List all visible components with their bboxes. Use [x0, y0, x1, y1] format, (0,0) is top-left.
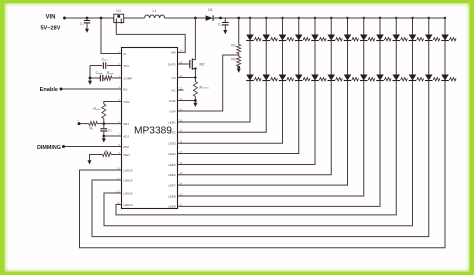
wire LED2 bus — [178, 81, 267, 133]
node CS junction — [194, 76, 196, 78]
svg-text:LED3: LED3 — [168, 142, 176, 146]
resistor R1 — [238, 18, 240, 45]
wire VCC pin — [107, 65, 122, 67]
svg-text:Rₐₒₙ: Rₐₒₙ — [107, 71, 114, 75]
wire string 6 upper — [330, 18, 332, 35]
svg-text:DIMMING: DIMMING — [37, 145, 61, 151]
wire COMP mid — [103, 77, 104, 79]
svg-text:LED2: LED2 — [168, 131, 176, 135]
capacitor Cout — [224, 18, 226, 22]
wire LED5 bus — [178, 81, 316, 165]
svg-text:R2: R2 — [231, 57, 236, 61]
svg-text:MP3389: MP3389 — [134, 126, 172, 137]
node string 7 top — [346, 17, 348, 19]
wire LED15 bus loop — [92, 81, 429, 237]
terminal FSET — [78, 122, 81, 125]
svg-text:Rₛₒₙₛₒ: Rₛₒₙₛₒ — [200, 85, 210, 89]
wire ISET pin — [111, 154, 122, 156]
LED string 4 D4a — [295, 35, 303, 41]
wire L1 to D1 — [165, 17, 206, 19]
svg-text:Cₛ: Cₛ — [108, 129, 113, 133]
node R2 bottom — [237, 66, 240, 69]
LED string 10 D10a — [392, 35, 400, 41]
svg-text:EN: EN — [123, 87, 127, 91]
node string 4 top — [298, 17, 300, 19]
pin NC stub — [178, 89, 184, 91]
node ADJ junction — [102, 135, 105, 138]
resistor Rsense — [193, 82, 197, 97]
LED string 4 D4b — [295, 75, 303, 81]
wire GND pin — [178, 100, 196, 102]
transistor M2 — [189, 60, 191, 68]
wire OSC pin — [104, 102, 122, 105]
node string 3 top — [281, 17, 283, 19]
node string 9 top — [379, 17, 381, 19]
capacitor Cset stem — [103, 124, 105, 129]
resistor Rset — [89, 122, 98, 126]
wire string 13 upper — [444, 18, 446, 35]
LED string 10 D10b — [392, 75, 400, 81]
wire string 6 middle — [330, 41, 332, 75]
wire LED8 bus — [178, 81, 364, 197]
node string 5 top — [314, 17, 316, 19]
node string 2 top — [265, 17, 267, 19]
node string 8 top — [363, 17, 365, 19]
svg-text:LED16: LED16 — [123, 168, 133, 172]
LED string 8 D8b — [360, 75, 368, 81]
terminal Enable — [60, 88, 63, 91]
wire string 10 middle — [395, 41, 397, 75]
terminal DIMMING — [62, 145, 65, 148]
svg-text:LED8: LED8 — [168, 194, 176, 198]
LED string 12 D12a — [425, 35, 433, 41]
node string 1 top — [249, 17, 251, 19]
svg-text:COMP: COMP — [123, 76, 132, 80]
svg-text:LED4: LED4 — [168, 152, 176, 156]
node string 12 top — [428, 17, 430, 19]
svg-text:SW: SW — [171, 51, 176, 55]
node R1 top junction — [237, 17, 240, 20]
wire string 12 middle — [428, 41, 430, 75]
LED string 11 D11b — [409, 75, 417, 81]
resistor R2 — [237, 57, 241, 67]
wire string 4 upper — [298, 18, 300, 35]
svg-text:Cₒ: Cₒ — [218, 23, 223, 27]
svg-text:Cₗₒₒ: Cₗₒₒ — [102, 58, 109, 62]
LED string 7 D7b — [344, 75, 352, 81]
wire U1 to L1 — [124, 17, 145, 19]
wire string 13 middle — [444, 41, 446, 75]
wire ADJ pin — [104, 135, 122, 137]
wire gate pin — [178, 63, 190, 65]
wire string 5 upper — [314, 18, 316, 35]
resistor Rosc — [102, 104, 106, 119]
svg-text:25: 25 — [179, 60, 183, 64]
wire string 2 middle — [265, 41, 267, 75]
ground Rsense — [194, 101, 196, 103]
svg-text:ISET: ISET — [123, 153, 130, 157]
svg-text:LED15: LED15 — [123, 178, 133, 182]
svg-text:26: 26 — [179, 49, 183, 53]
node COMP gnd junction — [89, 77, 92, 80]
wire string 4 middle — [298, 41, 300, 75]
wire string 1 middle — [249, 41, 251, 75]
wire Rsense bottom — [194, 97, 196, 101]
wire COMP left — [90, 77, 100, 79]
capacitor Cin — [86, 18, 88, 20]
wire string 9 upper — [379, 18, 381, 35]
wire LED6 bus — [178, 81, 332, 175]
wire string 1 upper — [249, 18, 251, 35]
ground R2 — [238, 67, 240, 69]
wire LED1 bus — [178, 81, 251, 123]
svg-text:D1: D1 — [208, 8, 213, 12]
capacitor Ccomp — [99, 75, 101, 82]
svg-text:LED9: LED9 — [168, 205, 176, 209]
terminal VIN — [63, 17, 66, 20]
svg-text:L1: L1 — [153, 9, 157, 13]
svg-text:LED13: LED13 — [123, 203, 133, 207]
LED string 13 D13a — [441, 35, 449, 41]
svg-text:VIN: VIN — [45, 14, 55, 20]
node string 11 top — [411, 17, 413, 19]
svg-text:U1: U1 — [116, 9, 121, 13]
wire string 10 upper — [395, 18, 397, 35]
wire LED14 bus loop — [104, 81, 413, 226]
node string 10 top — [395, 17, 397, 19]
node string 13 top — [444, 17, 446, 19]
node SW — [194, 17, 197, 20]
wire string 5 middle — [314, 41, 316, 75]
capacitor Cvcc — [102, 62, 104, 69]
LED string 3 D3a — [279, 35, 287, 41]
wire string 11 middle — [412, 41, 414, 75]
wire string 3 middle — [282, 41, 284, 75]
svg-text:GATE: GATE — [168, 62, 176, 66]
LED string 8 D8a — [360, 35, 368, 41]
wire LED13 bus loop — [116, 81, 396, 215]
svg-text:CS: CS — [172, 76, 176, 80]
svg-text:VCC: VCC — [123, 64, 130, 68]
svg-text:Cₐₒₙ: Cₐₒₙ — [96, 71, 103, 75]
svg-text:DIM: DIM — [123, 145, 129, 149]
wire OVP tap — [238, 54, 240, 57]
LED string 5 D5a — [311, 35, 319, 41]
IC U2 MP3389 body — [122, 48, 178, 209]
svg-text:LED7: LED7 — [168, 183, 176, 187]
wire LED16 bus loop — [80, 81, 446, 248]
wire Cset bottom — [103, 132, 105, 136]
wire EN pin — [63, 88, 122, 90]
wire string 7 middle — [347, 41, 349, 75]
svg-text:Enable: Enable — [40, 87, 58, 93]
LED string 12 D12b — [425, 75, 433, 81]
svg-text:Rₒₛₐ: Rₒₛₐ — [93, 107, 100, 111]
wire string 2 upper — [265, 18, 267, 35]
LED string 13 D13b — [441, 75, 449, 81]
wire FSET left — [81, 123, 89, 125]
wire output rail — [213, 17, 445, 19]
wire CS pin — [178, 77, 196, 79]
svg-text:Rₛ: Rₛ — [90, 127, 95, 131]
resistor Rcomp — [104, 76, 112, 80]
svg-text:OVP: OVP — [169, 109, 175, 113]
LED string 2 D2b — [262, 75, 270, 81]
wire string 9 middle — [379, 41, 381, 75]
svg-text:□: □ — [77, 118, 79, 122]
svg-text:LED14: LED14 — [123, 191, 133, 195]
svg-text:SET: SET — [123, 122, 129, 126]
wire VIN pin drop — [101, 18, 122, 54]
wire string 3 upper — [282, 18, 284, 35]
ground Riset — [89, 159, 91, 161]
svg-text:LED1: LED1 — [168, 120, 176, 124]
LED string 9 D9b — [376, 75, 384, 81]
wire OVP to pin — [178, 55, 239, 111]
svg-text:GND: GND — [169, 99, 177, 103]
svg-text:21: 21 — [179, 107, 183, 111]
resistor Riset — [103, 152, 112, 156]
svg-text:LED5: LED5 — [168, 163, 176, 167]
svg-text:ADJ: ADJ — [123, 134, 129, 138]
svg-text:R1: R1 — [231, 43, 236, 47]
wire U1 gate loop — [116, 23, 185, 53]
node string 6 top — [330, 17, 332, 19]
LED string 7 D7a — [344, 35, 352, 41]
svg-text:IN: IN — [123, 52, 126, 56]
wire string 7 upper — [347, 18, 349, 35]
wire LED4 bus — [178, 81, 299, 154]
wire LED9 bus — [178, 81, 381, 207]
LED string 11 D11a — [409, 35, 417, 41]
wire Rosc bottom — [103, 119, 105, 124]
ground Cset — [103, 137, 105, 139]
wire LED7 bus — [178, 81, 348, 186]
svg-text:M2: M2 — [200, 62, 205, 66]
diode D1 — [206, 15, 213, 21]
wire string 8 middle — [363, 41, 365, 75]
svg-text:24: 24 — [179, 74, 183, 78]
wire string 8 upper — [363, 18, 365, 35]
wire VCC to gnd — [89, 66, 91, 79]
LED string 1 D1b — [246, 75, 254, 81]
svg-text:23: 23 — [179, 86, 183, 90]
svg-text:5V~28V: 5V~28V — [40, 25, 60, 31]
node OSC junction — [102, 122, 105, 125]
wire COMP pin — [112, 77, 122, 79]
LED string 9 D9a — [376, 35, 384, 41]
svg-text:LED6: LED6 — [168, 173, 176, 177]
wire ISET left — [90, 155, 103, 160]
node Cout junction — [219, 17, 222, 20]
inductor L1 — [145, 15, 150, 18]
wire string 11 upper — [412, 18, 414, 35]
ground Cout — [224, 29, 226, 31]
LED string 6 D6b — [327, 75, 335, 81]
wire DIM pin — [65, 146, 122, 148]
svg-text:22: 22 — [179, 97, 183, 101]
wire SET pin — [104, 123, 122, 125]
capacitor Cset — [100, 128, 107, 130]
wire LED3 bus — [178, 81, 283, 144]
wire Rset to junction — [97, 123, 104, 125]
LED string 2 D2a — [262, 35, 270, 41]
LED string 1 D1a — [246, 35, 254, 41]
switch U1 — [114, 14, 124, 22]
LED string 6 D6a — [327, 35, 335, 41]
LED string 3 D3b — [279, 75, 287, 81]
node VIN-pin junction — [100, 17, 103, 20]
ground Cin — [86, 27, 88, 29]
svg-text:OSC: OSC — [123, 100, 130, 104]
wire VIN rail to U1 — [66, 17, 114, 19]
ground VCC COMP — [89, 79, 91, 81]
LED string 5 D5b — [311, 75, 319, 81]
node Cin junction — [86, 17, 89, 20]
wire string 12 upper — [428, 18, 430, 35]
node Rsense bottom junction — [194, 99, 197, 102]
